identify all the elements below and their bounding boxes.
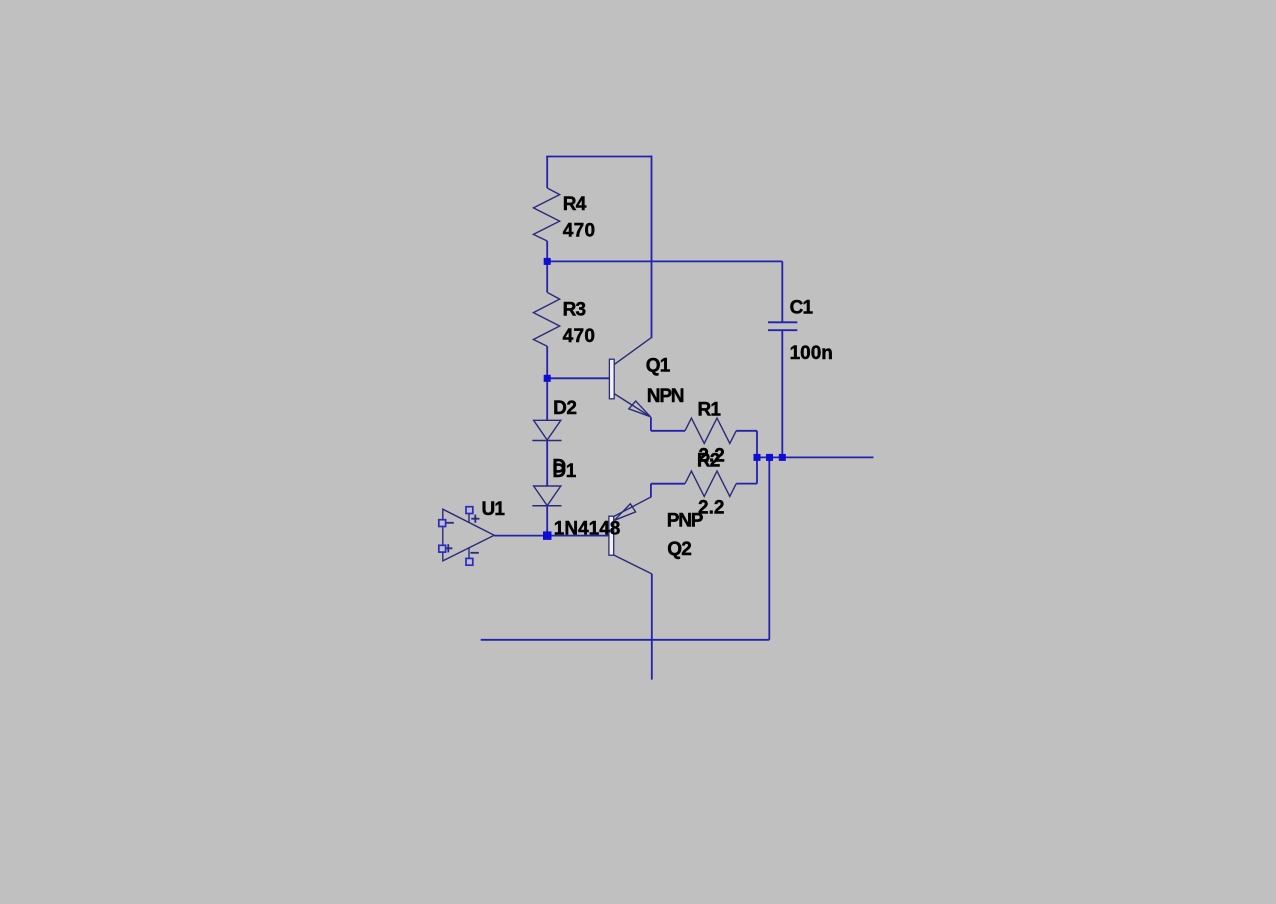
wire R3 top lead — [546, 261, 548, 292]
op-amp U1 — [439, 507, 494, 566]
svg-text:U1: U1 — [482, 499, 506, 520]
wire R2 right lead — [736, 483, 757, 485]
resistor R3 — [533, 292, 559, 346]
svg-text:1N4148: 1N4148 — [554, 518, 621, 539]
node junction output row right — [779, 454, 786, 461]
wire Q1 collector riser — [651, 156, 653, 339]
wire node row y261 to C1 — [547, 260, 782, 262]
svg-text:R4: R4 — [563, 194, 587, 215]
wire R3 bottom lead — [546, 346, 548, 378]
wire Q2 emitter elbow — [650, 484, 652, 498]
node junction at op-amp output — [543, 531, 552, 540]
svg-text:R1: R1 — [698, 399, 722, 420]
diode D2 — [534, 420, 561, 440]
svg-text:Q1: Q1 — [646, 356, 671, 377]
transistor Q2 — [609, 497, 652, 574]
wire D1 cathode to output node — [546, 506, 548, 536]
svg-text:NPN: NPN — [647, 386, 684, 407]
diode D1 — [534, 486, 561, 506]
svg-text:470: 470 — [563, 326, 596, 347]
wire R4 top lead — [546, 157, 548, 189]
wire Q1 emitter vertical — [650, 417, 652, 431]
wire D2 anode lead — [546, 378, 548, 420]
node junction at R3/Q1 base — [544, 375, 551, 382]
svg-text:Q2: Q2 — [667, 539, 691, 560]
svg-text:R2: R2 — [697, 450, 720, 471]
wire top loop — [546, 156, 651, 158]
wire R4 bottom lead — [546, 241, 548, 261]
resistor R4 — [533, 188, 559, 241]
wire Q1 base — [547, 377, 609, 379]
node junction output row left — [754, 454, 761, 461]
wire R1 right lead — [736, 430, 757, 432]
wire R1 left lead — [651, 430, 685, 432]
capacitor C1 — [768, 321, 797, 323]
svg-text:C1: C1 — [790, 297, 814, 318]
node junction at R4/R3 — [544, 258, 551, 265]
wire ground rail — [481, 639, 770, 641]
wire output node row to right — [756, 456, 874, 458]
wire D2-D1 link — [546, 441, 548, 487]
svg-text:PNP: PNP — [667, 511, 704, 532]
wire Q2 collector drop — [651, 574, 653, 680]
resistor R2 — [685, 471, 736, 496]
transistor Q1 — [609, 337, 651, 417]
resistor R1 — [685, 418, 736, 443]
wire R2 left lead — [651, 483, 685, 485]
wire C1 lower lead — [781, 330, 783, 457]
wire op-amp output to Q2 base — [494, 535, 609, 537]
svg-text:470: 470 — [563, 221, 596, 242]
svg-text:R3: R3 — [563, 300, 586, 321]
wire R1-R2 right vertical — [756, 431, 758, 484]
wire C1 upper lead — [781, 261, 783, 322]
node junction output row middle — [766, 454, 773, 461]
svg-text:D2: D2 — [553, 398, 577, 419]
svg-text:100n: 100n — [790, 343, 833, 364]
svg-text:D1: D1 — [552, 461, 576, 482]
wire rail riser to node row — [768, 457, 770, 639]
